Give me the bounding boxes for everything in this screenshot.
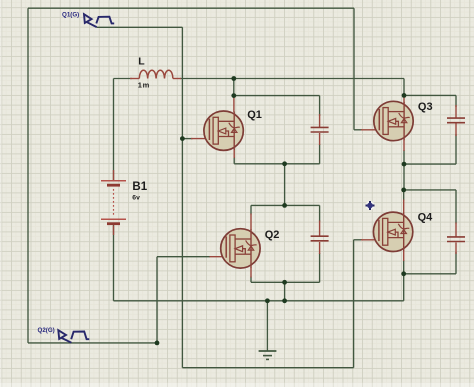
node Q3 source [402,162,407,167]
pin C2 bottom [319,242,321,254]
wire top bus G2 [28,7,354,9]
wire Q2 source node [251,277,320,283]
pin Q1 gate [191,138,210,140]
pin Q4 source [403,251,405,262]
node Q2 source [282,280,287,285]
svg-text:Q2(G): Q2(G) [38,327,55,334]
pin Q2 gate [210,256,227,258]
svg-text:B1: B1 [132,181,147,193]
wire V+ bus inductor to Q3 [180,78,404,80]
pin B1 bottom [113,226,115,236]
wire ground stem [266,301,268,351]
pin L right [173,78,181,80]
wire Q3 drain node to C3 [404,94,456,96]
wire G1 bottom horizontal [182,367,353,369]
transistor Q2 [221,229,260,268]
wire C4 bottom lead green [455,252,457,274]
wire C1 bottom lead green [319,144,321,164]
node Q2 gate junction [155,341,160,346]
pin Q2 drain [250,214,252,231]
generator Q2(G) [58,330,89,343]
pin Q3 gate [361,129,380,131]
red component pin stubs [114,79,457,278]
wire Q4 source riser [403,274,405,301]
transistor Q3 [374,101,413,140]
capacitor C4 [447,237,465,242]
pin C4 top [455,223,457,238]
wire Q1 drain node to C1 [234,95,320,97]
pin Q1 drain [233,98,235,113]
svg-text:Q1: Q1 [247,109,262,121]
wire Q4 gate riser [353,240,355,368]
wire Q4 source node [404,260,456,274]
pin Q3 source [403,140,405,152]
wire Q1 source node A [234,157,319,164]
wire C2 bottom lead green [319,253,321,282]
wire Q3 source node [404,163,456,165]
wire C3 top lead green [455,95,457,107]
edge blur band bottom [0,383,474,387]
wire C4 top lead green [455,190,457,224]
pin C3 top [455,105,457,118]
wire Q4 drain node [404,190,456,201]
wire C2 top lead green [319,205,321,221]
pin B1 top [113,170,115,180]
origin marker [365,201,374,210]
pin Q2 source [250,267,252,278]
wire node A drop [284,164,286,206]
node Q2 drain [282,203,287,208]
battery B1 [101,181,126,224]
wire Q1 branch vertical [233,79,235,99]
edge blur band left [0,0,2,387]
pin Q4 gate [361,239,380,241]
pin Q3 drain [403,97,405,104]
wire battery negative drop [113,225,115,301]
wire Q1 gate stub [182,138,192,140]
transistor Q4 [373,212,412,251]
svg-text:Q4: Q4 [418,211,434,223]
pin C4 bottom [455,243,457,255]
svg-text:Q2: Q2 [265,229,280,241]
node Q1 drain [231,93,236,98]
svg-text:1m: 1m [138,80,150,89]
wire Q2 gate horizontal [157,256,210,258]
node Q4 source [401,271,406,276]
node A upper [282,161,287,166]
node Q3 drain [402,93,407,98]
wire G1 long vertical [181,27,183,367]
node Q4 drain [401,188,406,193]
wire Q3 source to Q4 drain [403,150,405,190]
node ground tap [265,298,270,303]
wire Q3 gate horizontal [354,129,362,131]
node bus tap [282,298,287,303]
pin C1 top [319,114,321,127]
wire ground bus [114,300,404,302]
capacitor C1 [311,127,329,132]
wire Q3 gate vertical from top [353,8,355,130]
wire C3 bottom lead green [455,134,457,164]
wire Q2 source drop [284,282,286,301]
wire Q3 drain drop [403,79,405,98]
capacitor C3 [447,118,465,123]
ground [259,351,277,359]
node Q1 gate tap [180,136,185,141]
wire C1 top lead green [319,96,321,116]
svg-text:Q3: Q3 [418,101,433,113]
wire G1 top horizontal [97,26,183,28]
wire battery positive riser [113,79,115,181]
capacitor C2 [311,236,329,241]
pin C1 bottom [319,133,321,145]
svg-text:6v: 6v [132,195,140,202]
wire left vertical G2 [27,8,29,343]
svg-text:L: L [138,55,145,67]
wire Q2 gate riser [156,257,158,343]
wire Q2 drain node [251,205,320,214]
pin L left [130,78,139,80]
wire Q4 gate horizontal [354,239,362,241]
pin Q4 drain [403,200,405,214]
node bus to Q1 branch [231,76,236,81]
inductor L1 [139,70,173,78]
pin C3 bottom [455,124,457,137]
svg-text:Q1(G): Q1(G) [62,11,79,18]
pin C2 top [319,221,321,237]
transistor Q1 [204,111,243,150]
wire bottom-left G2 [28,342,157,344]
generator Q1(G) [84,14,114,27]
wire battery to inductor [114,78,133,80]
pin Q1 source [233,149,235,158]
